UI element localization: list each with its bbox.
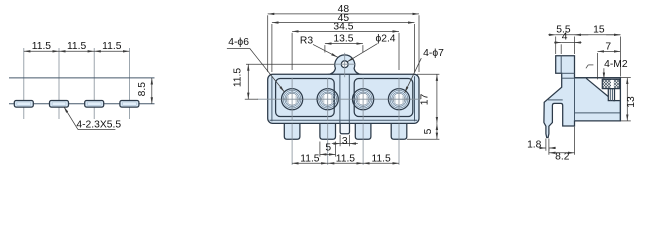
foot 2 <box>320 123 336 139</box>
slot 3 (2.3x5.5) <box>85 101 104 108</box>
svg-text:4-ϕ6: 4-ϕ6 <box>228 37 249 48</box>
dimension 8.2 <box>548 149 550 155</box>
svg-text:4-2.3X5.5: 4-2.3X5.5 <box>76 120 121 131</box>
svg-text:15: 15 <box>593 24 605 35</box>
svg-text:5: 5 <box>423 128 434 134</box>
leg bend ledge line <box>548 99 563 101</box>
svg-text:8.5: 8.5 <box>137 82 148 97</box>
foot 3 <box>355 123 371 139</box>
svg-text:13.5: 13.5 <box>333 34 353 45</box>
dimension 5 (foot width) <box>319 142 321 157</box>
contact hole 2 (phi6/phi7) <box>317 78 338 121</box>
svg-text:11.5: 11.5 <box>67 41 87 52</box>
dimension 4 <box>560 44 562 54</box>
side view silhouette (tab plate, wall, body, bent leg with pin) <box>544 56 621 138</box>
svg-text:ϕ2.4: ϕ2.4 <box>375 34 395 45</box>
contact hole 3 (phi6/phi7) <box>353 78 374 121</box>
lip bottom line <box>562 72 575 74</box>
centerline slot 3 <box>93 48 95 119</box>
svg-text:13: 13 <box>626 96 637 108</box>
dimension 45 <box>271 24 273 72</box>
dimension 13 <box>621 77 631 79</box>
dimension 3 (key) <box>339 135 341 147</box>
svg-text:7: 7 <box>605 41 611 52</box>
svg-text:11.5: 11.5 <box>371 153 391 164</box>
svg-text:8.2: 8.2 <box>555 152 570 163</box>
shelf line <box>575 112 621 114</box>
extension line foot 363.1 <box>362 124 364 165</box>
plate inner line <box>560 56 562 74</box>
svg-text:5: 5 <box>325 142 331 153</box>
dimensions 11.5 x3 bottom <box>292 162 328 164</box>
dimension 13.5 <box>324 45 326 52</box>
contact hole 1 (phi6/phi7) <box>282 78 303 121</box>
dimension 8.5 <box>151 78 153 104</box>
tapped hole below insert <box>608 89 614 101</box>
svg-text:3: 3 <box>342 136 348 147</box>
right cavity <box>354 79 413 117</box>
svg-text:11.5: 11.5 <box>102 41 122 52</box>
front wall line <box>574 78 576 121</box>
centerline slot 4 <box>128 48 130 119</box>
dimension 17 <box>417 73 439 75</box>
centerline slot 1 <box>23 48 25 119</box>
chamfer diagonal <box>586 78 613 100</box>
svg-text:17: 17 <box>419 94 430 106</box>
mounting tab (dome R3) <box>328 55 362 75</box>
svg-text:4-M2: 4-M2 <box>604 59 628 70</box>
svg-text:R3: R3 <box>300 35 313 46</box>
dimension 15 <box>575 34 589 36</box>
svg-text:11.5: 11.5 <box>300 153 320 164</box>
horizontal centerline through holes <box>258 98 421 100</box>
connector body outline 48 wide <box>268 74 419 123</box>
dimension 7 <box>597 53 599 79</box>
svg-text:1.8: 1.8 <box>527 139 542 150</box>
left cavity <box>276 79 335 117</box>
M2 threaded insert hatch <box>602 79 619 88</box>
center channel lines <box>339 74 341 123</box>
cavity floor <box>613 100 620 102</box>
foot 4 <box>391 123 407 139</box>
centerline slot 2 <box>58 48 60 119</box>
body top inner line <box>562 77 575 79</box>
contact hole 4 (phi6/phi7) <box>388 78 409 121</box>
svg-text:4-ϕ7: 4-ϕ7 <box>423 48 444 59</box>
counterbore cavity (white wedge) <box>586 78 620 100</box>
foot 1 <box>284 123 300 139</box>
slot 2 (2.3x5.5) <box>50 101 69 108</box>
slot 1 (2.3x5.5) <box>14 101 33 108</box>
extension line foot 292.1 <box>291 124 293 165</box>
slot 4 (2.3x5.5) <box>120 101 139 108</box>
svg-text:34.5: 34.5 <box>333 22 353 33</box>
svg-text:11.5: 11.5 <box>336 153 356 164</box>
edge line top <box>9 77 155 79</box>
section line through slots <box>9 103 155 105</box>
dimension 5 (feet height) <box>407 138 439 140</box>
inner wall lines (45 wide) <box>271 76 273 121</box>
svg-text:11.5: 11.5 <box>233 68 244 88</box>
dimension 11.5 chain (left view) <box>24 50 59 52</box>
leader and label 4-2.3X5.5 <box>64 107 78 130</box>
dimension 11.5 vertical <box>246 63 335 65</box>
body edge restroke <box>575 78 621 121</box>
dimension 34.5 <box>291 33 293 70</box>
dimension 1.8 <box>545 139 547 151</box>
center key tab <box>340 123 349 133</box>
dimension 48 <box>267 15 269 72</box>
svg-text:4: 4 <box>562 32 568 43</box>
extension line foot 327.7 <box>327 124 329 165</box>
extension line foot 399.0 <box>398 124 400 165</box>
svg-text:11.5: 11.5 <box>32 41 52 52</box>
tab hole phi2.4 <box>341 61 348 68</box>
dimension 5.5 <box>555 37 557 55</box>
